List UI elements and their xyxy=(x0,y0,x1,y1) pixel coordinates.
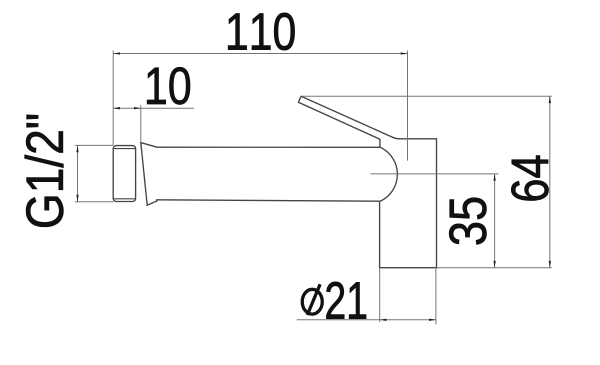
dim G1/2 extension top xyxy=(75,144,113,146)
text 110 xyxy=(228,13,294,50)
dim G1/2 line xyxy=(77,145,79,201)
handle lever xyxy=(298,96,399,147)
phi symbol slash xyxy=(307,284,320,315)
dim 64 line xyxy=(549,96,551,267)
arrow 110 right xyxy=(401,52,408,54)
dim phi21 line xyxy=(297,319,436,321)
dim 10 extension right xyxy=(140,105,142,142)
dim 110 extension right xyxy=(407,51,409,161)
thread nipple G1/2 xyxy=(113,146,135,202)
arrow phi21 right xyxy=(429,319,436,321)
text 10 xyxy=(147,67,190,104)
dim phi21 extension right xyxy=(435,268,437,325)
text G1/2&quot; xyxy=(25,115,64,227)
nipple chamfer line bottom xyxy=(114,198,135,200)
phi symbol ellipse xyxy=(302,289,322,314)
dim 110 line xyxy=(113,53,407,55)
body column xyxy=(380,139,437,268)
cone flange xyxy=(141,143,157,206)
dim 10 line xyxy=(113,107,194,109)
text 64 xyxy=(511,156,548,201)
arrow 10 right xyxy=(134,107,141,109)
tube round end arc xyxy=(380,147,397,201)
dim 64/35 shared extension bottom xyxy=(437,267,552,269)
arrow 35 bottom xyxy=(493,261,495,268)
dim 35 extension top (tube centerline) xyxy=(371,173,499,175)
dim 64 extension top xyxy=(302,95,552,97)
nipple chamfer line top xyxy=(114,148,135,150)
arrow phi21 left xyxy=(380,319,387,321)
dim 35 line xyxy=(494,174,496,268)
text 35 xyxy=(449,198,486,245)
arrow 110 left xyxy=(113,52,120,54)
dim G1/2 extension bottom xyxy=(75,201,113,203)
arrow 10 left xyxy=(113,107,120,109)
arrow 64 bottom xyxy=(549,261,551,268)
dim phi21 extension left xyxy=(379,268,381,323)
tube bottom line xyxy=(157,200,380,201)
tube top line xyxy=(157,146,381,148)
arrow G1/2 bottom xyxy=(76,195,78,202)
text 21 xyxy=(326,282,366,319)
arrow G1/2 top xyxy=(76,145,78,152)
arrow 35 top xyxy=(493,174,495,181)
dim 110 extension left xyxy=(112,51,114,146)
arrow 64 top xyxy=(549,96,551,103)
